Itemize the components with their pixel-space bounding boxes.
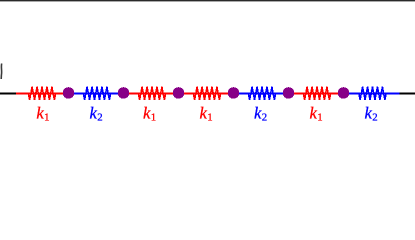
spring S1 (k1) wire (node to node) bbox=[16, 93, 63, 95]
spring S2 (k2) zigzag bbox=[83, 87, 110, 100]
spring S4 (k1) zigzag bbox=[193, 87, 220, 100]
left edge cropped glyph bbox=[0, 64, 3, 80]
mass m6 bbox=[338, 87, 350, 99]
spring S3 (k1) zigzag bbox=[138, 87, 165, 100]
spring S7 (k2) zigzag bbox=[359, 87, 386, 100]
spring S6 (k1) wire (node to node) bbox=[293, 93, 338, 95]
spring S4 (k1) wire (node to node) bbox=[183, 93, 228, 95]
mass m2 bbox=[118, 87, 130, 99]
mass m1 bbox=[63, 87, 75, 99]
spring S2 (k2) wire (node to node) bbox=[73, 93, 118, 95]
spring-mass chain diagram bbox=[0, 0, 415, 133]
mass m5 bbox=[283, 87, 295, 99]
spring S5 (k2) wire (node to node) bbox=[238, 93, 283, 95]
spring S3 (k1) wire (node to node) bbox=[128, 93, 173, 95]
mass m4 bbox=[228, 87, 240, 99]
spring S1 (k1) zigzag bbox=[28, 87, 55, 100]
wire black stub right bbox=[399, 93, 415, 95]
spring S5 (k2) zigzag bbox=[248, 87, 275, 100]
spring S7 (k2) wire (node to node) bbox=[348, 93, 399, 95]
spring S6 (k1) zigzag bbox=[303, 87, 330, 100]
mass m3 bbox=[173, 87, 185, 99]
wire black stub left bbox=[0, 93, 16, 95]
top rule (cropped edge of figure) bbox=[0, 0, 415, 1]
